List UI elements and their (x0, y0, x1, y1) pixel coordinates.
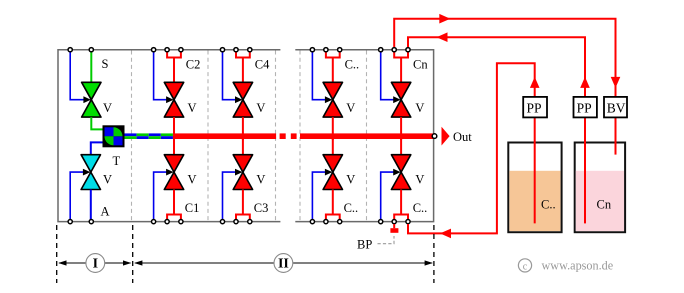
pilot wire bottom (154, 172, 167, 220)
red U bracket top C2 (167, 52, 181, 58)
dimension I (58, 254, 131, 273)
svg-text:C3: C3 (254, 201, 269, 215)
wire red stem top (173, 58, 175, 84)
left enclosure box (58, 50, 280, 222)
wire red supply top (to BV) (394, 19, 615, 96)
tank Cn (575, 143, 625, 233)
svg-text:V: V (346, 101, 355, 115)
svg-text:A: A (101, 205, 110, 219)
svg-text:V: V (256, 173, 265, 187)
mixed output dashed wire (125, 133, 173, 139)
right enclosure box (295, 50, 433, 222)
valve C2 top (164, 82, 183, 99)
arrow left on PP1 loop (440, 229, 451, 239)
nodes bottom (152, 220, 156, 224)
svg-text:C..: C.. (344, 201, 359, 215)
svg-text:BP: BP (357, 237, 372, 251)
svg-text:V: V (415, 173, 424, 187)
valve C1 bottom (164, 155, 183, 172)
svg-text:Cn: Cn (413, 57, 428, 71)
manifold right section (300, 133, 434, 139)
node S (89, 48, 93, 52)
wire red to manifold (173, 117, 175, 140)
wire blue mixer to valve A (91, 142, 103, 155)
valve A/V (cyan) (81, 155, 100, 190)
svg-text:BV: BV (607, 100, 626, 115)
wire red stem bottom (173, 190, 175, 215)
dashed segment divider x=366.5 (366, 51, 368, 221)
svg-text:Out: Out (453, 130, 472, 144)
wire red BV outlet in tank (615, 118, 617, 155)
svg-text:C1: C1 (185, 201, 200, 215)
node A (89, 220, 93, 224)
svg-text:I: I (93, 257, 98, 272)
pump PP1 (523, 97, 547, 118)
dashed segment divider x=300 (299, 51, 301, 221)
wire green S supply (90, 51, 92, 83)
wire red return upper (from PP2) (408, 37, 585, 96)
BP pointer (378, 236, 395, 244)
dashed segment divider x=131.5 (131, 51, 133, 221)
svg-text:V: V (256, 101, 265, 115)
dimension II (134, 254, 433, 273)
svg-text:V: V (415, 101, 424, 115)
valve column C../C.. (valves, pilots, nodes; copy of C2/C1 column) (310, 48, 342, 224)
svg-text:V: V (103, 101, 112, 115)
tank C.. (508, 143, 561, 233)
svg-text:C2: C2 (186, 57, 201, 71)
valve BV (604, 97, 627, 118)
pilot wire blue (bottom) (70, 172, 83, 220)
pilot wire blue (top) (70, 51, 84, 100)
svg-text:T: T (113, 154, 121, 168)
manifold break dashes (280, 133, 286, 139)
svg-text:C..: C.. (345, 57, 360, 71)
svg-text:V: V (188, 101, 197, 115)
wire red manifold to bottom valve (173, 139, 175, 155)
BP plug (390, 228, 398, 233)
wire red PP1 loop (408, 63, 535, 233)
nodes top (152, 48, 156, 52)
svg-text:V: V (346, 173, 355, 187)
arrow up into circuit PP2 (580, 77, 590, 88)
svg-text:S: S (102, 57, 109, 71)
svg-text:C4: C4 (255, 57, 270, 71)
svg-text:C..: C.. (541, 198, 556, 212)
valve column C4/C3 (valves, pilots, nodes; copy of C2/C1 column) (220, 48, 252, 224)
dashed segment divider x=208 (207, 51, 209, 221)
svg-text:Cn: Cn (597, 198, 612, 212)
wire red PP2 suction in tank (584, 118, 586, 224)
mixer T (103, 125, 125, 147)
svg-text:c: c (523, 261, 528, 272)
valve column Cn/C.. (valves, pilots, nodes; copy of C2/C1 column) (379, 48, 411, 224)
wire green valve to mixer (91, 117, 103, 129)
arrow left on return upper (437, 32, 448, 42)
svg-text:PP: PP (527, 100, 542, 115)
node top pilot I (68, 48, 72, 52)
BP plug stem (393, 224, 395, 228)
svg-text:PP: PP (577, 100, 592, 115)
extension dashed line right (433, 225, 435, 283)
extension dashed line mid (132, 225, 134, 283)
arrow right on supply (439, 14, 450, 24)
svg-text:V: V (103, 173, 112, 187)
extension dashed line left (56, 225, 58, 283)
wire blue A to bottom (90, 190, 92, 221)
arrow Out (442, 127, 450, 146)
red U bracket bottom C1 (167, 215, 181, 220)
pilot arrowhead (83, 96, 91, 103)
dashed segment divider x=275.5 (275, 51, 277, 221)
arrow down into BV (611, 77, 621, 88)
node Out (432, 134, 437, 139)
svg-text:V: V (188, 173, 197, 187)
valve S/V (green) (82, 82, 101, 117)
arrow up PP1 (530, 77, 540, 88)
pilot wire top (154, 51, 167, 100)
node bottom pilot I (68, 220, 72, 224)
wire red PP1 suction in tank (534, 118, 536, 224)
pump PP2 (574, 97, 597, 118)
main output manifold (thick red line) (173, 133, 276, 139)
svg-text:www.apson.de: www.apson.de (542, 259, 614, 273)
svg-text:C..: C.. (413, 201, 428, 215)
svg-text:II: II (278, 257, 289, 272)
pilot arrowhead (83, 169, 91, 176)
